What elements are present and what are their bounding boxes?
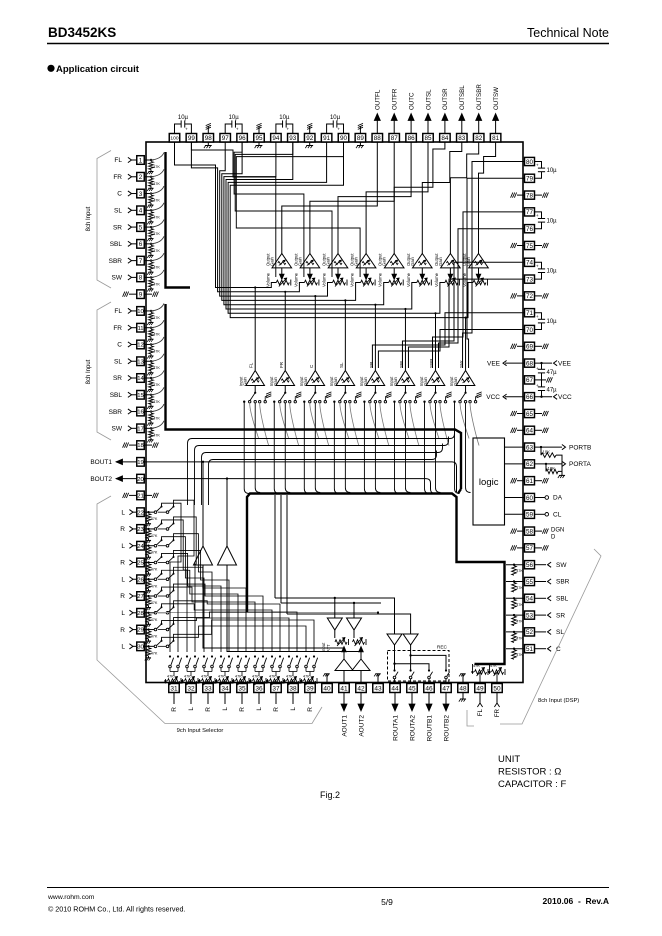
rec wire inverter1 to switches [394,645,396,671]
pin 52 (right) [525,628,535,636]
output arrow OUTSR pin 84 [444,119,446,134]
wire volume pot 8 feedback loop [230,142,473,318]
svg-text:ROUTB1: ROUTB1 [426,715,433,742]
wire river horizontal left drop [188,439,193,506]
svg-text:Gain: Gain [333,376,338,386]
pin 30 (left, selector L) [137,642,145,651]
wire pin 10 into chip [144,310,153,312]
svg-text:14: 14 [137,376,144,382]
pin 41 (bottom) [339,684,350,693]
op-amp aout buffer 1 [335,659,353,671]
resistor 47K pin 15 [149,396,154,404]
svg-text:OUTFL: OUTFL [375,89,382,110]
signal terminal right of pin 21 [144,494,152,496]
selector matrix wire b pin 30 [174,620,315,652]
output arrow ROUTA2 pin 45 [411,693,413,705]
selector contacts under input amp SBL [404,386,406,393]
svg-text:Gain: Gain [363,376,368,386]
resistor 47K pin 2 [149,178,154,186]
pin 29 (left, selector R) [137,625,145,634]
svg-text:47K: 47K [235,675,242,679]
svg-text:Fig.2: Fig.2 [320,790,340,800]
signal terminal left of pin 57 inside [517,547,525,549]
resistor 47K pin 11 [149,329,154,337]
svg-text:47K: 47K [269,675,276,679]
ground pin 8 resistor [150,287,152,289]
wire input select column a amp 4 [334,402,339,494]
signal ground near input amp SW [475,397,477,401]
wire amp 2 output to pin [310,142,394,254]
svg-text:VEE: VEE [558,360,572,367]
bracket 9ch Input Selector left [97,496,322,724]
svg-text:47K: 47K [153,400,160,404]
rec wire inverter2 to switches [410,645,412,671]
pin 85 (top) [423,134,434,143]
svg-text:17: 17 [137,426,144,432]
svg-text:23: 23 [137,527,144,533]
wire arc pin 15 to bus [150,387,164,395]
wire pin 22 into chip [144,511,154,513]
wire pin 12 into chip [144,343,153,345]
wire to rec inverter 1 [393,598,395,634]
IC body outline [146,142,523,683]
svg-text:L: L [121,610,125,617]
pin 34 (bottom) [220,684,231,693]
svg-text:logic: logic [479,477,499,488]
pin 35 (bottom) [237,684,248,693]
ground pin 4 resistor [150,220,152,222]
rec switch pin 47 [445,669,447,671]
section bullet Application circuit [47,65,54,72]
svg-text:Volume: Volume [378,272,383,287]
pin 53 (right) [525,611,535,619]
svg-text:+: + [536,314,539,319]
svg-text:FR: FR [113,174,122,181]
svg-text:90: 90 [340,135,348,142]
selector switch a pin 27 [154,595,157,598]
pin 60 DA terminal [535,497,546,499]
pin 87 (top) [389,134,400,143]
svg-text:54: 54 [526,596,534,603]
svg-text:47K: 47K [218,675,225,679]
wire volume pot 3 feedback loop [220,142,333,296]
output arrow ROUTA1 pin 44 [394,693,396,705]
ground pin 27 selector resistor [148,606,150,608]
wire volume pot 7 feedback loop [228,142,445,313]
svg-text:+: + [185,127,188,132]
resistor 47K pin 53 DSP [512,616,517,626]
wire pin 77 into chip to input amp 7 [433,212,525,368]
svg-text:25: 25 [137,561,144,567]
svg-text:8ch Input: 8ch Input [86,359,92,384]
svg-text:32: 32 [187,685,195,692]
pin 62 (right) [525,460,535,468]
svg-text:SBL: SBL [110,392,123,399]
pin 18 (left) [137,441,145,450]
pin 81 (top) [490,134,501,143]
resistor 47K pin 12 [149,346,154,354]
signal ground near input amp SR [384,397,386,401]
selector switch b pin 30 [158,645,166,647]
signal terminal right of pin 57 [535,547,543,549]
op-amp output gain SBL [413,254,433,268]
wire volume pot 1 feedback loop [175,142,277,288]
svg-text:47K: 47K [153,383,160,387]
svg-text:D: D [551,535,556,541]
wire input select column b amp 1 [255,403,260,493]
svg-text:45: 45 [408,685,416,692]
wire cap partner pin to amp 4 input [236,142,360,277]
capacitor 10u between pins 94 and 93 [276,124,283,134]
ground pin 26 selector resistor [148,589,150,591]
svg-text:Gain: Gain [303,376,308,386]
wire pot to pin 33 [207,681,209,684]
pin 91 (top) [321,134,332,143]
wire pin 16 into chip [144,411,153,413]
output arrow ROUTB2 pin 47 [445,693,447,705]
wire pot to pin 32 [190,681,192,684]
wire pin 70 into chip to input amp 5 [378,330,524,369]
pin 8 (left, SW) [137,273,145,282]
selector contacts under input amp FL [254,386,256,393]
svg-text:FR: FR [113,325,122,332]
signal terminal right of pin 18 [144,444,152,446]
selector switch pair pin 31 [169,655,171,657]
arrow att 2 [359,647,364,652]
svg-text:55: 55 [526,579,534,586]
svg-text:L: L [121,543,125,550]
svg-text:73: 73 [526,276,534,283]
resistor 47K pin 8 [149,279,154,287]
op-amp aout buffer 2 [352,659,370,671]
svg-text:OUTSBR: OUTSBR [476,84,483,110]
op-amp input gain SBR [426,371,445,386]
pin 84 (top) [440,134,451,143]
svg-text:76: 76 [526,226,534,233]
capacitor 10u between pins 71 and 70 [535,313,542,320]
svg-text:61: 61 [526,478,534,485]
svg-text:10µ: 10µ [279,115,290,121]
pin 52 DSP input SL [535,631,547,633]
wire pot to pin 35 [241,681,243,684]
pin 28 (left, selector L) [137,608,145,617]
svg-text:VEE: VEE [487,360,501,367]
svg-text:1: 1 [139,157,143,164]
svg-text:+: + [536,163,539,168]
REC dashed box [388,651,450,682]
selector external wire pin 34 [224,693,226,705]
svg-text:R: R [307,707,314,712]
svg-text:R: R [120,627,125,634]
op-amp output gain SL [356,254,376,268]
gray long wire [155,612,378,614]
pin 51 (right) [525,645,535,653]
volume pot amp 2 [309,268,311,275]
resistor 47K pin 27 [146,598,151,606]
svg-text:L: L [121,576,125,583]
pin 75 (right) [525,241,535,249]
signal terminal right of pin 64 [535,429,543,431]
wire BOUT1 pin 19 [144,462,456,492]
pin 27 (left, selector R) [137,592,145,601]
svg-text:47K: 47K [516,653,523,657]
capacitor 10u between pins 80 and 79 [535,162,542,169]
svg-text:47K: 47K [201,675,208,679]
svg-text:21: 21 [137,494,144,500]
svg-text:19: 19 [137,460,144,466]
svg-text:51: 51 [526,646,534,653]
svg-text:9: 9 [139,291,143,298]
pin 36 (bottom) [254,684,265,693]
bus group1 bold [166,152,191,288]
op-amp BOUT1 buffer [202,462,204,546]
svg-text:82: 82 [475,135,483,142]
signal terminal left of pin 75 inside [517,245,525,247]
svg-text:Gain: Gain [269,256,274,266]
selector external wire pin 35 [241,693,243,705]
pin 4 (left, SL) [137,206,145,215]
wire BOUT2 buffer down [227,565,361,659]
svg-text:47K: 47K [153,215,160,219]
signal terminal left of pin 18 [129,444,137,446]
svg-text:65: 65 [526,411,534,418]
ground pin 17 resistor [150,438,152,440]
svg-text:SBL: SBL [110,241,123,248]
pin 68 (right) [525,359,535,367]
svg-text:10µ: 10µ [330,115,341,121]
wire river horizontal [213,451,437,460]
svg-text:ROUTB2: ROUTB2 [443,715,450,742]
selector matrix wire b pin 29 [174,612,298,652]
selector switch a pin 22 [154,511,157,514]
wire logic to pin 62 [505,463,525,465]
svg-text:42: 42 [357,685,365,692]
wire cap partner pin to amp 2 input [234,142,304,277]
pin 39 (bottom) [305,684,316,693]
svg-text:SBR: SBR [109,409,123,416]
pin 50 (bottom) [492,684,503,693]
svg-text:FL: FL [477,708,484,716]
op-amp input gain SBL [396,371,415,386]
svg-text:68: 68 [526,360,534,367]
svg-text:Volume: Volume [293,272,298,287]
svg-text:AOUT2: AOUT2 [358,715,365,737]
svg-text:47K: 47K [516,620,523,624]
svg-text:95: 95 [255,135,263,142]
signal terminal left of pin 61 inside [517,480,525,482]
signal terminal left of pin 21 [129,494,137,496]
signal terminal left of pin 65 inside [517,413,525,415]
selector matrix wire a pin 23 [162,520,188,652]
wire arc pin 13 to bus [150,354,164,362]
bus selector to DSP bold [247,494,505,665]
wire volume pot 4 feedback loop [222,142,361,300]
svg-text:47K: 47K [151,635,158,639]
svg-text:20: 20 [137,477,144,483]
wire amp 3 output to pin [338,142,411,254]
pin 73 (right) [525,275,535,283]
wire input amp FL output up [254,288,256,371]
svg-text:10µ: 10µ [547,319,558,325]
wire pot to pin 38 [292,681,294,684]
ground pin 2 resistor [150,186,152,188]
svg-text:© 2010 ROHM Co., Ltd. All righ: © 2010 ROHM Co., Ltd. All rights reserve… [48,905,186,914]
selector matrix wire a pin 25 [162,553,222,652]
resistor 10K pin 63 [540,446,542,448]
resistor 47K pin 24 [146,547,151,555]
wire pin 56 to bus [506,564,525,566]
selector contacts under input amp SBR [435,386,437,393]
ground pin 23 selector resistor [148,538,150,540]
header rule [47,43,609,45]
bracket 8ch Input group 1 [97,151,111,289]
svg-text:R: R [171,707,178,712]
wire pin 79 into chip to input amp 8 [467,178,525,368]
wire pin 55 to bus [506,581,525,583]
pin 24 (left, selector L) [137,541,145,550]
wire input select column a amp 1 [244,402,249,494]
selector switch b pin 25 [158,561,166,563]
signal ground near input amp SBR [445,397,447,401]
svg-text:86: 86 [408,135,416,142]
wire arc pin 16 to bus [150,404,164,412]
svg-text:47K: 47K [153,165,160,169]
svg-text:R: R [239,707,246,712]
selector matrix wire a pin 29 [162,618,290,652]
selector matrix wire b pin 28 [174,601,281,652]
wire input select column a amp 6 [394,402,399,494]
selector switch pair pin 37 [271,655,273,657]
svg-text:8ch Input: 8ch Input [86,206,92,231]
resistor 47K pin 30 [146,648,151,656]
pin 23 (left, selector R) [137,525,145,534]
pin 63 (right) [525,443,535,451]
wire pin 4 into chip [144,209,153,211]
pin 56 (right) [525,561,535,569]
wire pin 23 into chip [144,528,154,530]
pin 93 (top) [288,134,299,143]
selector external wire pin 33 [207,693,209,705]
wire pot to pin 37 [275,681,277,684]
svg-text:REC: REC [437,645,448,651]
selector contacts under input amp SL [344,386,346,393]
resistor 47K pin 4 [149,212,154,220]
wire BOUT1 buffer down [203,565,344,659]
pin 79 (right) [525,174,535,182]
pin 82 (top) [473,134,484,143]
wire river horizontal [199,437,449,446]
op-amp input gain SW [456,371,475,386]
wire pin 25 into chip [144,561,154,563]
pin 68 VEE arrow inside [505,362,525,364]
pin 71 (right) [525,309,535,317]
pin 60 (right) [525,493,535,501]
svg-text:47K: 47K [153,366,160,370]
wire pin 51 to bus [506,648,525,650]
pin 92 (top) [304,134,315,143]
svg-text:+: + [337,127,340,132]
bus join [458,489,461,494]
svg-text:SBR: SBR [429,358,434,368]
svg-text:47K: 47K [490,664,497,668]
svg-text:78: 78 [526,192,534,199]
svg-text:BOUT1: BOUT1 [90,459,112,466]
svg-text:L: L [290,707,297,711]
svg-text:47K: 47K [286,675,293,679]
selector matrix wire b pin 25 [174,550,230,652]
wires input amp SR contacts down gray [370,403,379,439]
wire input select column b amp 6 [405,403,410,493]
ground inside above pin 40 [326,677,328,684]
pin 54 (right) [525,594,535,602]
svg-text:47K: 47K [153,249,160,253]
pin 80 (right) [525,157,535,165]
pin 15 (left, SBL) [137,390,145,399]
ground inside below pin 92 [309,142,311,146]
selector switch b pin 26 [158,578,166,580]
volume pot 47K pin 49 DSP input [472,664,474,670]
pin 64 (right) [525,426,535,434]
svg-text:10µ: 10µ [547,168,558,174]
svg-text:98: 98 [205,135,213,142]
resistor 47K pin 7 [149,262,154,270]
wire pin 1 into chip [144,159,153,161]
svg-text:34: 34 [221,685,229,692]
pin 32 (bottom) [186,684,197,693]
selector matrix wire b pin 22 [174,500,195,652]
selector matrix wire b pin 26 [174,567,247,652]
svg-text:SBR: SBR [109,258,123,265]
input FR pin 50 [496,693,498,704]
svg-text:47K: 47K [151,601,158,605]
pin 44 (bottom) [390,684,401,693]
signal terminal right of pin 75 [535,245,543,247]
logic block [473,438,505,525]
wire arc pin 5 to bus [150,220,164,228]
ground pin 5 resistor [150,237,152,239]
svg-text:53: 53 [526,612,534,619]
selector external wire pin 36 [258,693,260,705]
svg-text:L: L [222,707,229,711]
rec switch pin 44 [393,669,395,671]
resistor 47K pin 5 [149,229,154,237]
pin 66 (right) [525,393,535,401]
pin 62 PORTA arrow [535,463,563,465]
svg-text:SR: SR [113,375,122,382]
wire arc pin 6 to bus [150,236,164,244]
signal terminal left of pin 64 inside [517,429,525,431]
svg-text:100: 100 [170,136,178,142]
pin 33 (bottom) [203,684,214,693]
svg-text:+: + [536,264,539,269]
wire BOUT2 pin 20 [144,479,435,494]
svg-text:SW: SW [112,275,123,282]
svg-text:+: + [236,127,239,132]
wire logic to pin 60 [505,497,525,499]
svg-text:SW: SW [112,426,123,433]
svg-text:6: 6 [139,241,143,248]
svg-text:75: 75 [526,243,534,250]
pin 54 DSP input SBL [535,597,547,599]
svg-text:SL: SL [114,208,122,215]
svg-text:ATT: ATT [326,644,331,652]
ground pin 15 resistor [150,404,152,406]
svg-text:OUTSR: OUTSR [442,88,449,110]
svg-text:5: 5 [139,224,143,231]
svg-text:58: 58 [526,528,534,535]
footer rule [47,887,609,889]
wire pin 30 into chip [144,645,154,647]
